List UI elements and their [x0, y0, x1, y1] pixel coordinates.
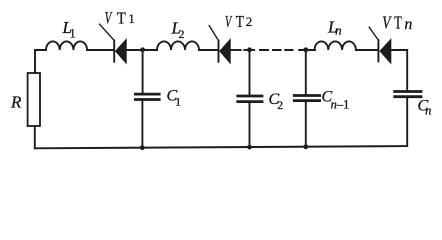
- inductor L2: [157, 41, 199, 50]
- node junction Cn-1-top: [303, 47, 308, 52]
- svg-text:T: T: [394, 13, 402, 33]
- capacitor C1: [135, 50, 159, 148]
- wire top-left corner to L1: [35, 50, 46, 73]
- node junction Cn-1-bottom: [303, 144, 308, 149]
- node junction C2-bottom: [247, 145, 252, 150]
- wire L2 to VT2: [199, 49, 218, 51]
- wire Ln to VTn: [356, 49, 378, 51]
- inductor L1: [46, 41, 87, 50]
- svg-text:Cn: Cn: [418, 98, 432, 118]
- wire dash segment with node: [244, 49, 254, 51]
- label VT1: [105, 9, 135, 28]
- wire VTn to right corner: [391, 50, 407, 90]
- svg-text:C1: C1: [167, 88, 182, 109]
- wire dashed-end to Ln with node: [299, 49, 315, 51]
- label VTn: [382, 13, 412, 33]
- svg-text:Cn–1: Cn–1: [322, 89, 350, 112]
- wire bottom bus: [35, 146, 407, 148]
- wire VT2 into dashed section: [231, 49, 241, 51]
- svg-text:1: 1: [128, 11, 135, 26]
- svg-text:V: V: [382, 14, 392, 33]
- wire resistor to bottom: [34, 127, 36, 149]
- wire L1 to VT1: [87, 49, 113, 51]
- capacitor Cn-1: [294, 50, 319, 147]
- svg-text:R: R: [10, 93, 22, 112]
- thyristor VTn: [369, 27, 391, 63]
- label VT2: [225, 13, 252, 32]
- svg-text:L1: L1: [62, 18, 76, 41]
- wire dashed line: [260, 49, 293, 51]
- svg-text:2: 2: [246, 14, 253, 29]
- svg-text:Ln: Ln: [327, 18, 342, 38]
- thyristor VT1: [100, 24, 127, 63]
- svg-text:n: n: [404, 16, 412, 33]
- wire VT1 to L2 with node: [127, 49, 157, 51]
- inductor Ln: [315, 41, 356, 50]
- svg-text:L2: L2: [171, 19, 185, 42]
- svg-text:T: T: [117, 10, 126, 28]
- svg-text:V: V: [225, 13, 232, 32]
- svg-text:C2: C2: [269, 91, 284, 112]
- capacitor Cn: [395, 92, 421, 147]
- svg-text:V: V: [105, 9, 113, 28]
- thyristor VT2: [209, 26, 230, 64]
- node junction C1-top: [140, 47, 145, 52]
- capacitor C2: [238, 50, 262, 147]
- resistor R: [28, 73, 40, 126]
- node junction C1-bottom: [140, 145, 145, 150]
- svg-text:T: T: [236, 13, 245, 32]
- node junction C2-top: [247, 47, 252, 52]
